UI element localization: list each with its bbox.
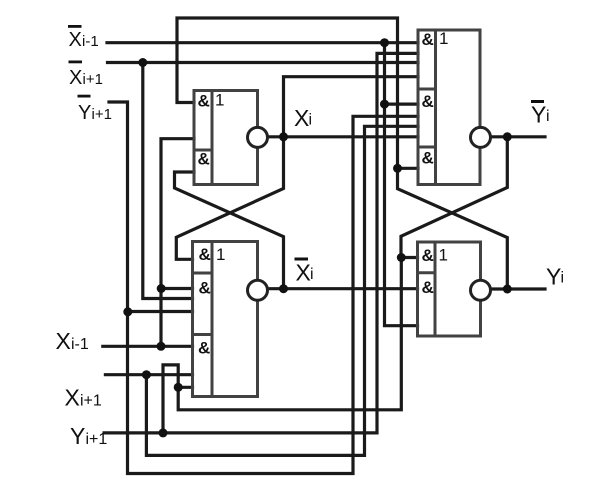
label output Xi — [294, 105, 312, 131]
svg-text:i+1: i+1 — [86, 431, 108, 448]
junction Xbar(i+1) branch — [138, 58, 147, 67]
svg-text:Y: Y — [70, 423, 85, 449]
label input Y(i+1) — [70, 423, 107, 449]
gate U2 (lower left AND-OR-NOT) box — [193, 242, 258, 397]
inverter bubble U2 output — [248, 280, 268, 300]
wire Ybar_i output line — [491, 135, 546, 138]
label input X(i+1) — [65, 385, 102, 411]
gate U3 (upper right AND-OR-NOT) box — [418, 30, 480, 185]
svg-text:i-1: i-1 — [71, 336, 89, 353]
svg-text:&: & — [198, 92, 210, 111]
svg-text:&: & — [422, 92, 434, 111]
svg-text:&: & — [199, 279, 211, 298]
wire Xi branch up to U3 cell1 — [284, 77, 419, 137]
inverter bubble U4 output — [471, 280, 491, 300]
junction Y(i+1) branch — [159, 428, 168, 437]
wire Xbar_i to U4 cell2 — [284, 287, 418, 290]
junction Xbar_i output node — [279, 284, 288, 293]
wire Yi cross-coupling diagonal to U3 cell3 — [398, 168, 508, 289]
junction Xbar(i-1) at U3 cell2 — [380, 100, 389, 109]
svg-text:&: & — [422, 30, 434, 49]
junction Xbar(i-1) branch — [380, 38, 389, 47]
junction X(i-1) line — [157, 342, 166, 351]
wire Ybar(i+1) stub into U2 cell2 — [128, 310, 193, 313]
svg-text:1: 1 — [439, 29, 448, 48]
svg-text:i+1: i+1 — [80, 393, 102, 410]
junction bus at U4 cell1 — [397, 253, 406, 262]
wire Xi to U3 cell2 — [284, 135, 419, 138]
wire X(i+1) branch bottom bus to U3 cell2 — [146, 126, 418, 455]
junction Ybar_i output node — [503, 132, 512, 141]
svg-text:1: 1 — [439, 246, 448, 265]
junction Yi feedback at U3 cell3 — [393, 164, 402, 173]
junction Ybar(i+1) branch — [123, 307, 132, 316]
svg-text:&: & — [422, 149, 434, 168]
svg-text:&: & — [198, 339, 210, 358]
svg-text:X: X — [294, 105, 309, 131]
label output Ybar_i — [531, 100, 550, 127]
gate U4 (lower right AND-OR-NOT) box — [418, 242, 481, 336]
svg-text:Y: Y — [78, 102, 91, 124]
wire X(i-1) branch up to U1 cell1 — [161, 139, 194, 347]
wire Xbar(i-1) stub into U3 cell2 — [385, 102, 419, 105]
wire Yi feedback top rail to U1 pin1 and U3 cell3 — [177, 18, 398, 168]
wire Xbar(i+1) input line — [108, 61, 419, 64]
svg-text:Y: Y — [546, 263, 561, 289]
svg-text:X: X — [65, 385, 80, 411]
svg-text:&: & — [198, 150, 210, 169]
svg-text:i+1: i+1 — [83, 71, 103, 88]
svg-text:&: & — [422, 278, 434, 297]
svg-text:X: X — [296, 260, 311, 286]
svg-text:i-1: i-1 — [82, 33, 99, 50]
wire Xbar(i-1) input line — [107, 41, 418, 44]
junction Xi output node — [279, 132, 288, 141]
wire Xbar(i-1) branch down to U4 cell2 — [385, 43, 418, 326]
label output Xbar_i — [295, 258, 314, 286]
wire Yi output line — [491, 287, 546, 290]
label input Xbar(i+1) — [69, 61, 103, 90]
wire Xi output to junction — [268, 135, 284, 138]
inverter bubble U1 output — [248, 127, 268, 147]
wire Y(i+1) input line — [104, 53, 418, 433]
gate U1 (upper left AND-OR-NOT) box — [194, 91, 258, 185]
wire X(i+1) input line — [105, 373, 192, 376]
wire Ybar_i cross-coupling diagonal to U4 cell1 — [401, 137, 507, 258]
label input Ybar(i+1) — [78, 95, 112, 124]
svg-text:i: i — [309, 112, 313, 129]
svg-text:1: 1 — [215, 91, 224, 110]
svg-text:X: X — [56, 328, 71, 354]
wire Xbar(i+1) branch down to U2 cell2 — [143, 63, 193, 299]
svg-text:&: & — [422, 246, 434, 265]
wire Xi cross-coupling diagonal to U2 cell1 — [176, 137, 283, 259]
svg-text:Y: Y — [531, 101, 546, 127]
junction X(i+1) branch — [142, 370, 151, 379]
svg-text:i+1: i+1 — [92, 106, 112, 123]
wire Y(i+1) branch up jog to U2 cell3 — [163, 365, 193, 433]
junction U2 cell3 lower stub — [174, 383, 183, 392]
junction Yi output node — [503, 285, 512, 294]
wire U3 cell3 input stub — [398, 167, 419, 170]
label input X(i-1) — [56, 328, 89, 354]
svg-text:i: i — [561, 270, 565, 287]
svg-text:X: X — [69, 29, 82, 51]
svg-text:1: 1 — [216, 245, 225, 264]
label output Yi — [546, 263, 564, 289]
junction X(i-1) at U2 cell2 — [157, 284, 166, 293]
wire Ybar(i+1) input line down left side — [109, 102, 418, 474]
wire X(i-1) input line — [103, 345, 193, 348]
wire Xbar_i cross-coupling diagonal to U1 cell2 — [175, 172, 284, 289]
svg-text:i: i — [310, 266, 314, 283]
wire X(i-1) stub into U2 cell2 — [161, 287, 193, 290]
inverter bubble U3 output — [471, 127, 491, 147]
svg-text:i: i — [546, 108, 550, 125]
svg-text:&: & — [199, 245, 211, 264]
wire Xbar_i output to junction — [268, 287, 284, 290]
label input Xbar(i-1) — [68, 25, 99, 51]
svg-text:X: X — [69, 67, 82, 89]
wire Y(i+1)/Ybar bus bottom to U4 cell1 — [178, 258, 417, 410]
